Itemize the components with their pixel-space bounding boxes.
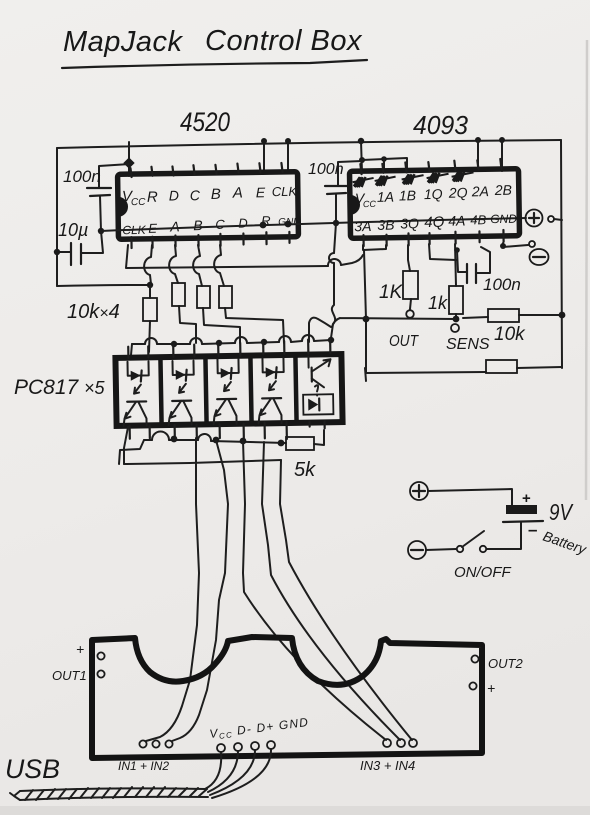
opto cell 5 diode D5: [303, 394, 333, 415]
svg-text:GND: GND: [490, 212, 517, 226]
svg-text:100n: 100n: [308, 161, 344, 178]
opto cell 4 LED D4: [262, 358, 284, 390]
battery terminal minus: [408, 541, 426, 559]
hole OUT1 a: [97, 652, 104, 659]
resistor R1 10k: [143, 285, 157, 352]
svg-text:+: +: [487, 680, 495, 696]
wire L4: bottom right line: [365, 367, 562, 381]
svg-text:ON/OFF: ON/OFF: [454, 564, 511, 581]
svg-text:CC: CC: [131, 197, 146, 208]
svg-text:2A: 2A: [471, 183, 489, 199]
opto cell 2 phototransistor Q2: [168, 401, 191, 425]
node: Vcc drop to U1: [128, 142, 130, 176]
IC U2 4093 body: [349, 159, 519, 247]
wire V1: 3A down to bottom line: [364, 250, 366, 373]
U2 bottom pin ticks: [363, 230, 503, 246]
resistor R7 10k: [488, 309, 526, 345]
hole OUT2 a: [471, 655, 478, 662]
wire W4 to IN4+: [262, 442, 400, 740]
svg-text:3A: 3A: [354, 218, 371, 234]
svg-text:USB: USB: [5, 754, 60, 784]
svg-text:4093: 4093: [413, 110, 469, 140]
wire: left rail bottom to R1: [57, 285, 150, 286]
svg-text:4Q: 4Q: [424, 214, 445, 231]
wire: right rail: [561, 140, 562, 368]
title MapJack Control Box: [62, 25, 367, 68]
svg-text:B: B: [193, 217, 203, 233]
hole Vcc: [217, 744, 225, 752]
resistor R4 10k: [219, 286, 284, 343]
capacitor C1 100n: [63, 167, 111, 231]
node OUT: [406, 310, 414, 318]
svg-text:MapJack: MapJack: [63, 26, 184, 58]
svg-text:A: A: [169, 218, 180, 234]
switch SW1 ON/OFF: [426, 531, 511, 581]
opto cell 1 LED D1: [127, 361, 149, 393]
svg-text:IN1 + IN2: IN1 + IN2: [118, 759, 169, 773]
svg-text:10µ: 10µ: [58, 220, 88, 240]
optocoupler block PC817 body: [115, 354, 342, 426]
PC817 top pin stubs: [128, 339, 330, 358]
resistor R6 1k: [428, 244, 490, 353]
svg-text:1B: 1B: [399, 187, 416, 203]
wire: PC817 cathode bus below: [144, 440, 286, 443]
opto cell 4 phototransistor Q4: [258, 398, 281, 423]
PC817 bottom pin stubs: [130, 421, 325, 441]
wire L2: U1 pin CLK to U2 3A: [126, 245, 363, 268]
svg-text:4520: 4520: [180, 107, 230, 137]
hole D-: [234, 743, 242, 751]
svg-text:SENS: SENS: [446, 336, 490, 353]
opto cell 1 phototransistor Q1: [123, 401, 146, 425]
capacitor C3 100n (mid): [308, 161, 362, 226]
U1 top pin ticks: [130, 163, 282, 177]
hole OUT1 b: [97, 670, 104, 677]
svg-text:B: B: [211, 186, 221, 203]
connector plate outline: [92, 637, 482, 758]
wire: plus terminal to battery: [428, 489, 512, 505]
resistor R3 10k: [197, 286, 240, 343]
svg-text:10k×4: 10k×4: [67, 301, 120, 323]
svg-text:10k: 10k: [494, 324, 526, 345]
wire: U1 pin C hook to R4: [214, 245, 224, 286]
svg-text:1A: 1A: [377, 189, 394, 205]
svg-text:A: A: [232, 185, 243, 202]
hole OUT2 b: [469, 682, 476, 689]
svg-text:3B: 3B: [377, 217, 394, 233]
svg-text:C: C: [215, 217, 225, 232]
svg-text:4B: 4B: [470, 212, 486, 227]
wire: U1 pin A hook to R2: [169, 245, 178, 283]
wire: 2B top drop: [499, 137, 505, 143]
battery B1 9V: [503, 490, 589, 558]
hole IN3-4 plus: [397, 739, 405, 747]
svg-text:5k: 5k: [294, 459, 316, 481]
terminal T2 minus: [529, 241, 549, 265]
wire: Vcc link to 1A 1B: [362, 158, 407, 172]
capacitor C2 10u: [54, 220, 103, 265]
svg-text:+: +: [522, 490, 531, 507]
node SENS: [451, 324, 459, 332]
node: 4093 Vcc drop: [358, 138, 364, 144]
terminal T1 plus: [526, 210, 563, 227]
svg-text:CLK: CLK: [272, 184, 299, 199]
battery terminal plus: [410, 482, 428, 500]
wire: U1 pin E top drop: [263, 141, 265, 172]
svg-text:9V: 9V: [549, 499, 574, 525]
svg-text:+: +: [76, 641, 84, 657]
wire L1: reset line through ICs: [101, 218, 526, 231]
wires USB to Vcc D- D+ GND: [205, 752, 221, 789]
wire: PC817 anode bus: [132, 340, 331, 344]
svg-text:2B: 2B: [494, 182, 512, 198]
U2 top pin ticks: [360, 159, 501, 174]
hole IN2: [165, 740, 172, 747]
IC U1 4520 body: [117, 163, 300, 249]
hole IN4: [409, 739, 417, 747]
wire: cell5 left pin to gnd hook: [309, 318, 331, 342]
svg-text:1K: 1K: [379, 282, 404, 303]
wire: U1 pin B hook to R3: [193, 245, 202, 286]
opto cell 3 LED D3: [217, 359, 239, 391]
wire W1 to IN1: [146, 438, 199, 741]
svg-text:D: D: [169, 187, 179, 203]
wire: battery minus to switch: [487, 522, 521, 549]
USB cable hatched band: [10, 787, 208, 800]
svg-text:OUT1: OUT1: [52, 668, 87, 683]
hole GND: [267, 741, 275, 749]
svg-text:2Q: 2Q: [448, 184, 468, 200]
wire: U1 pin CLK top drop: [287, 141, 289, 172]
opto cell 3 phototransistor Q3: [213, 399, 236, 424]
U2 scribbled-out labels: [354, 177, 366, 187]
svg-text:OUT2: OUT2: [488, 656, 523, 671]
U1 bottom pin ticks: [131, 232, 289, 248]
svg-text:100n: 100n: [63, 167, 101, 186]
wire: top supply rail: [57, 140, 561, 148]
hole D+: [251, 742, 259, 750]
svg-text:R: R: [147, 189, 158, 206]
hole IN3: [383, 739, 391, 747]
svg-text:4A: 4A: [448, 213, 465, 229]
resistor R9 5k: [286, 430, 324, 481]
hole IN1: [139, 740, 146, 747]
svg-text:Control Box: Control Box: [205, 25, 363, 57]
wire: U2 3A 3B loop: [363, 245, 386, 250]
svg-text:D: D: [238, 215, 248, 230]
wire: branch to C1: [99, 164, 129, 187]
svg-text:OUT: OUT: [389, 333, 419, 350]
wire W5 to IN4: [280, 460, 412, 740]
wire W3 to IN3: [243, 441, 386, 740]
wire V2: 100n down to PC817 bus: [331, 223, 336, 338]
hole IN1-2 plus: [152, 740, 159, 747]
paper edge shadow right: [586, 40, 587, 500]
svg-text:100n: 100n: [483, 275, 521, 294]
svg-text:CC: CC: [363, 199, 377, 209]
wire: U1 pin E hook to R1: [144, 245, 152, 284]
wire: U2 GND to minus terminal: [503, 243, 528, 247]
svg-text:IN3 + IN4: IN3 + IN4: [360, 758, 415, 773]
capacitor C4 100n: [457, 247, 521, 294]
svg-text:1Q: 1Q: [424, 186, 443, 202]
wire: U2 4Q to 4A node: [429, 244, 456, 260]
svg-text:C: C: [190, 187, 201, 203]
wire L3: gnd bus: [332, 315, 562, 327]
wire W2 to IN2: [172, 440, 228, 741]
opto cell 2 LED D2: [172, 361, 194, 393]
svg-text:1k: 1k: [428, 293, 448, 313]
resistor R5 1k: [379, 245, 419, 350]
svg-text:PC817 ×5: PC817 ×5: [14, 376, 106, 399]
wire: 2A top drop: [475, 137, 481, 143]
title underline: [62, 60, 367, 68]
node A: reset node: [98, 228, 104, 234]
opto cell 5 transistor Q5: [308, 356, 331, 395]
svg-text:E: E: [256, 184, 266, 200]
svg-text:3Q: 3Q: [400, 215, 419, 231]
resistor R8: [486, 360, 517, 373]
wire: left rail: [56, 148, 58, 286]
resistor R2 10k: [172, 283, 196, 343]
svg-text:–: –: [528, 520, 537, 539]
